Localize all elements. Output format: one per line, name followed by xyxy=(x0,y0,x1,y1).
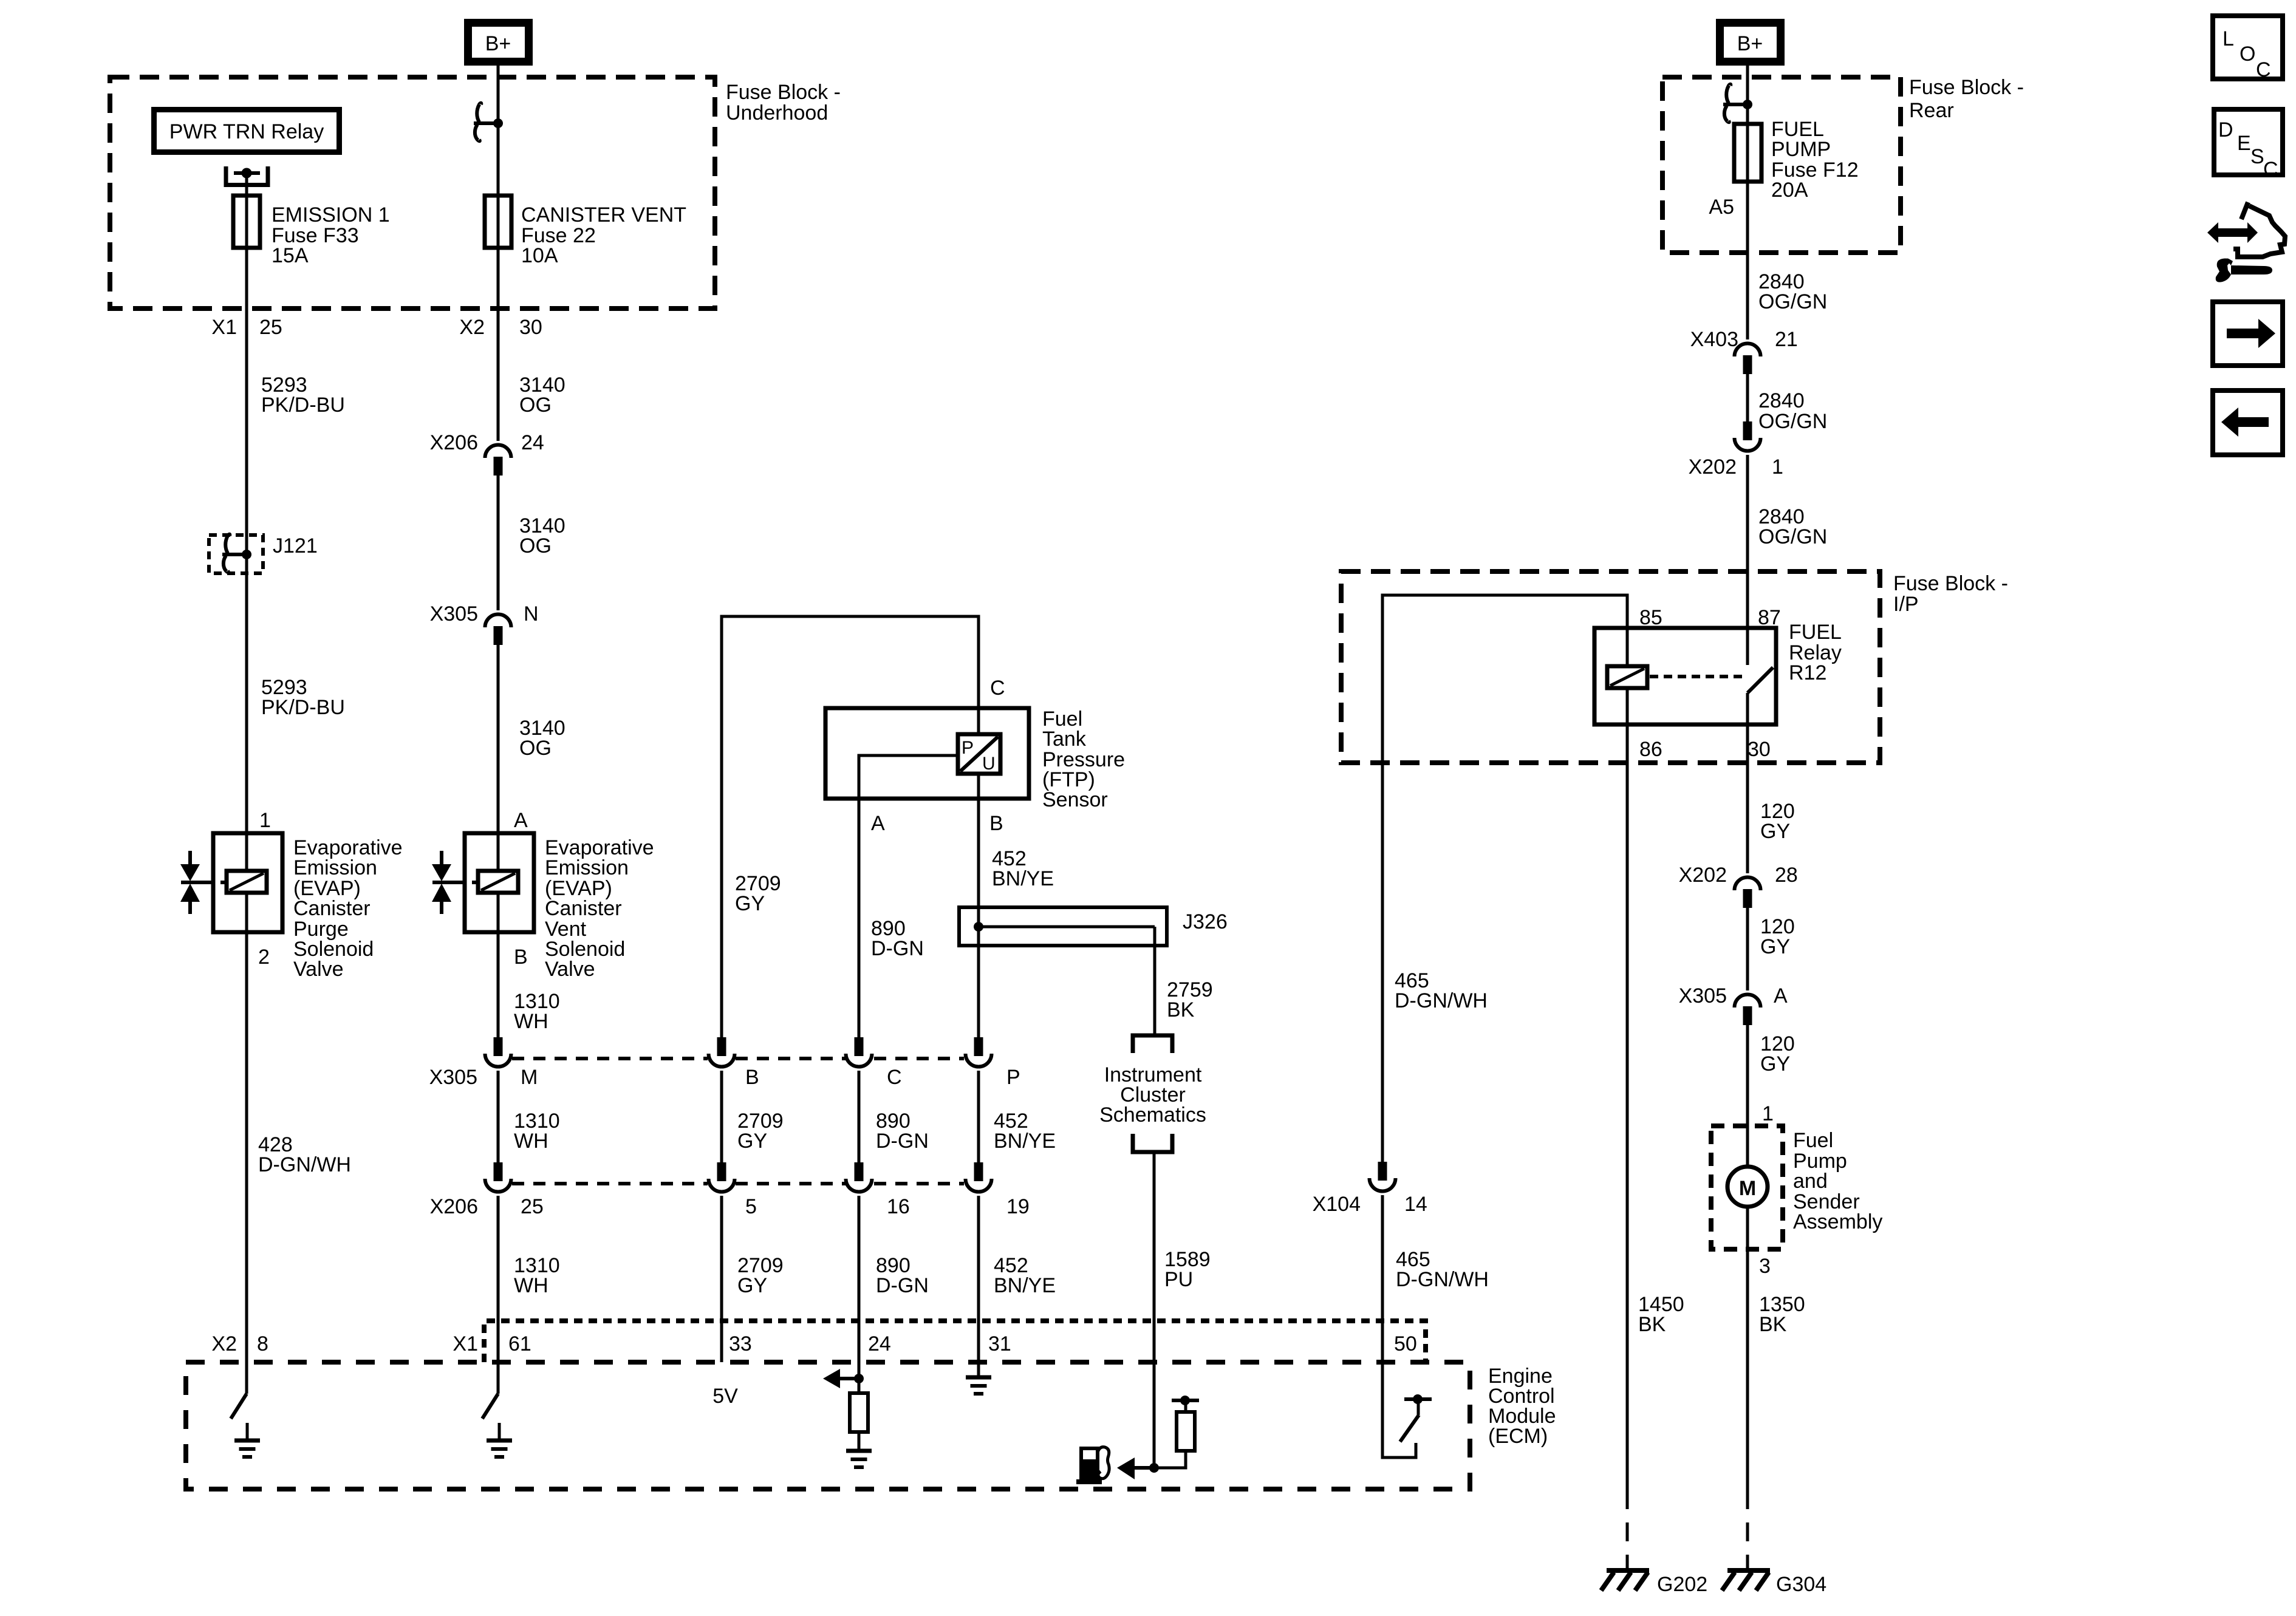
svg-text:PU: PU xyxy=(1164,1268,1193,1291)
wire 2840 OG/GN segment 2 xyxy=(1746,374,1749,421)
svg-text:21: 21 xyxy=(1775,328,1798,351)
svg-text:Fuse Block -: Fuse Block - xyxy=(1893,572,2008,595)
svg-text:X305: X305 xyxy=(429,1066,477,1089)
svg-text:FUEL: FUEL xyxy=(1789,621,1842,644)
wire 1310 WH segment 2 xyxy=(497,1071,500,1162)
FUEL Relay R12 label xyxy=(1789,621,1842,684)
relay switch blade xyxy=(1748,667,1773,693)
svg-text:A: A xyxy=(514,809,528,832)
svg-text:PK/D-BU: PK/D-BU xyxy=(261,394,345,417)
fuel relay box R12 xyxy=(1594,628,1776,724)
wire 2759 BK xyxy=(1153,927,1157,1034)
svg-text:CANISTER VENT: CANISTER VENT xyxy=(521,203,686,227)
Fuel Pump and Sender Assembly dashed box xyxy=(1711,1126,1783,1249)
ECM 5V reference arrow (pin 24) xyxy=(823,1369,864,1388)
svg-text:P: P xyxy=(962,738,974,758)
svg-text:BK: BK xyxy=(1759,1313,1787,1336)
svg-text:G304: G304 xyxy=(1776,1573,1826,1596)
row connector X206 5 xyxy=(709,1162,735,1192)
FTP sensor label xyxy=(1042,707,1125,811)
svg-text:S: S xyxy=(2250,145,2264,168)
svg-text:P: P xyxy=(1006,1066,1020,1089)
row connector X206 25 xyxy=(485,1162,511,1192)
svg-text:B: B xyxy=(745,1066,759,1089)
svg-text:C: C xyxy=(990,677,1005,700)
svg-text:61: 61 xyxy=(508,1332,531,1355)
forward arrow icon box xyxy=(2213,302,2283,366)
relay coil xyxy=(1607,666,1647,688)
svg-text:A5: A5 xyxy=(1709,196,1734,219)
wire 2709 GY segment 2 xyxy=(720,1071,723,1162)
svg-text:C: C xyxy=(2256,58,2271,81)
double-headed arrow xyxy=(2207,222,2258,243)
svg-text:GY: GY xyxy=(737,1274,767,1297)
Instrument Cluster Schematics label xyxy=(1099,1063,1206,1127)
svg-text:X202: X202 xyxy=(1679,864,1727,887)
svg-text:M: M xyxy=(521,1066,538,1089)
svg-text:1: 1 xyxy=(1772,455,1783,479)
EVAP vent valve label xyxy=(545,836,654,981)
wire 890 D-GN segment 3 xyxy=(858,1196,861,1379)
svg-text:1: 1 xyxy=(1762,1102,1774,1125)
ECM fuel pump driver switch (pin 50) xyxy=(1382,1362,1432,1457)
svg-text:PUMP: PUMP xyxy=(1771,138,1831,161)
wire 3140 OG segment 2 xyxy=(497,476,500,610)
svg-text:5: 5 xyxy=(745,1195,757,1218)
svg-text:3: 3 xyxy=(1759,1255,1771,1278)
svg-text:D-GN: D-GN xyxy=(876,1130,929,1153)
row connector X305 C xyxy=(846,1037,872,1067)
svg-text:D-GN: D-GN xyxy=(871,937,924,960)
inline connector X305 N xyxy=(430,602,539,645)
svg-text:D-GN: D-GN xyxy=(876,1274,929,1297)
svg-text:25: 25 xyxy=(521,1195,544,1218)
splice J121 xyxy=(209,534,318,573)
ECM label xyxy=(1488,1365,1556,1448)
svg-text:J326: J326 xyxy=(1183,910,1228,933)
svg-text:Assembly: Assembly xyxy=(1793,1210,1882,1233)
svg-text:OG/GN: OG/GN xyxy=(1758,410,1827,433)
svg-text:GY: GY xyxy=(1760,820,1790,843)
svg-text:GY: GY xyxy=(1760,1052,1790,1076)
svg-text:X305: X305 xyxy=(1679,984,1727,1007)
DESC icon box xyxy=(2214,109,2283,181)
svg-text:OG: OG xyxy=(519,394,552,417)
ECM sense resistor network (pin 16) xyxy=(1154,1396,1199,1468)
wrench icon xyxy=(2216,259,2272,282)
relay switched output wire (30) xyxy=(1746,693,1749,873)
Fuel Pump and Sender Assembly label xyxy=(1793,1129,1882,1233)
relay coil feed wire from ECM 50 xyxy=(1382,595,1627,763)
wire 120 GY segment 3 xyxy=(1746,1025,1749,1126)
svg-text:X1: X1 xyxy=(211,316,237,339)
ground (ECM pin 8) xyxy=(234,1440,260,1457)
svg-text:B+: B+ xyxy=(1737,32,1763,55)
svg-text:D-GN/WH: D-GN/WH xyxy=(1396,1268,1489,1291)
ECM X1 connector dotted boundary xyxy=(484,1321,1426,1362)
PWR TRN Relay box xyxy=(154,110,340,152)
svg-text:87: 87 xyxy=(1758,606,1781,629)
pump feed wire inside box xyxy=(1746,1126,1749,1167)
inline connector X202 1 xyxy=(1689,421,1783,479)
svg-text:50: 50 xyxy=(1394,1332,1417,1355)
instrument cluster off-page bracket top xyxy=(1133,1035,1172,1053)
fuse 22 CANISTER VENT xyxy=(485,196,511,248)
fuse F33 EMISSION 1 xyxy=(233,196,260,248)
svg-text:X206: X206 xyxy=(430,1195,478,1218)
Fuse Block - I/P dashed box xyxy=(1341,571,1880,763)
ground stub pin 61 xyxy=(498,1423,501,1440)
battery feed clip (rear) xyxy=(1723,84,1752,123)
ECM fuel level sense arrow (pin 16) xyxy=(1117,1457,1159,1479)
wire 2709 GY segment 3 xyxy=(720,1196,723,1362)
svg-text:WH: WH xyxy=(514,1274,548,1297)
vehicle silhouette icon xyxy=(2233,202,2285,257)
svg-text:PK/D-BU: PK/D-BU xyxy=(261,696,345,719)
ground G304 xyxy=(1722,1570,1770,1590)
EVAP canister purge solenoid valve xyxy=(180,833,282,932)
svg-text:OG: OG xyxy=(519,534,552,557)
wire 1589 PU xyxy=(1153,1152,1156,1468)
svg-text:R12: R12 xyxy=(1789,661,1826,684)
svg-text:X403: X403 xyxy=(1690,328,1738,351)
svg-text:14: 14 xyxy=(1404,1193,1427,1216)
splice J326 xyxy=(959,907,1228,946)
svg-text:Valve: Valve xyxy=(545,958,595,981)
svg-text:15A: 15A xyxy=(272,244,309,267)
svg-text:2: 2 xyxy=(258,946,270,969)
inline connector X104 14 xyxy=(1313,1162,1427,1216)
FTP sensor C wire top run xyxy=(722,616,979,1037)
svg-text:N: N xyxy=(524,602,539,626)
svg-text:Rear: Rear xyxy=(1909,99,1954,122)
svg-text:Fuse Block -: Fuse Block - xyxy=(1909,76,2024,99)
svg-text:20A: 20A xyxy=(1771,179,1808,202)
battery feed clip xyxy=(474,103,503,141)
X305 row dashed line xyxy=(512,1057,964,1060)
relay switch fixed contact (87) xyxy=(1746,628,1749,665)
svg-text:X202: X202 xyxy=(1689,455,1737,479)
svg-text:D-GN/WH: D-GN/WH xyxy=(258,1153,351,1176)
row connector X305 M xyxy=(485,1037,511,1067)
dashed ground lead 1350 BK xyxy=(1746,1490,1749,1569)
svg-text:B: B xyxy=(514,946,528,969)
dashed ground lead 1450 BK xyxy=(1626,1490,1629,1569)
svg-text:D-GN/WH: D-GN/WH xyxy=(1395,989,1488,1012)
svg-text:X206: X206 xyxy=(430,431,478,454)
svg-text:BN/YE: BN/YE xyxy=(994,1130,1056,1153)
ground (ECM pin 24 resistor) xyxy=(846,1451,872,1467)
svg-text:25: 25 xyxy=(259,316,282,339)
svg-text:D: D xyxy=(2218,118,2233,141)
wire 890 D-GN from FTP A xyxy=(858,799,861,1037)
ECM driver switch (pin 61) xyxy=(482,1394,498,1419)
ground (ECM pin 31) xyxy=(966,1377,991,1394)
ECM pull-up resistor (pin 24) xyxy=(850,1379,868,1449)
svg-text:(ECM): (ECM) xyxy=(1488,1425,1548,1448)
svg-text:Sensor: Sensor xyxy=(1042,788,1108,811)
ground (ECM pin 61) xyxy=(487,1440,512,1457)
svg-text:M: M xyxy=(1739,1177,1756,1200)
svg-text:28: 28 xyxy=(1775,864,1798,887)
svg-text:C: C xyxy=(2263,158,2278,181)
svg-text:X2: X2 xyxy=(211,1332,237,1355)
svg-text:B+: B+ xyxy=(485,32,511,55)
svg-text:and: and xyxy=(1793,1170,1828,1193)
svg-text:8: 8 xyxy=(257,1332,268,1355)
relay coil ground wire 1450 BK xyxy=(1626,688,1629,1490)
X206 row dashed line xyxy=(512,1182,964,1185)
EVAP purge valve label xyxy=(293,836,403,981)
Fuse Block - Underhood dashed box xyxy=(110,77,715,309)
svg-text:C: C xyxy=(887,1066,902,1089)
svg-text:G202: G202 xyxy=(1657,1573,1707,1596)
svg-text:X2: X2 xyxy=(459,316,485,339)
svg-text:GY: GY xyxy=(1760,935,1790,958)
svg-text:10A: 10A xyxy=(521,244,558,267)
svg-text:GY: GY xyxy=(735,892,765,915)
svg-text:E: E xyxy=(2237,132,2251,155)
row connector X206 16 xyxy=(846,1162,872,1192)
svg-text:BK: BK xyxy=(1167,998,1195,1021)
svg-text:PWR TRN Relay: PWR TRN Relay xyxy=(169,120,324,143)
instrument cluster off-page bracket bottom xyxy=(1133,1134,1172,1152)
wire relay to fuse F33 xyxy=(245,173,248,196)
svg-text:31: 31 xyxy=(988,1332,1011,1355)
inline connector X202 28 xyxy=(1679,864,1798,908)
svg-text:Underhood: Underhood xyxy=(726,101,828,124)
svg-text:1: 1 xyxy=(259,809,271,832)
pump return wire inside box xyxy=(1746,1207,1749,1249)
wire 3140 OG from B+ through fuse 22 xyxy=(497,66,500,441)
svg-text:OG: OG xyxy=(519,737,552,760)
svg-text:WH: WH xyxy=(514,1010,548,1033)
wire 452 BN/YE segment 3 xyxy=(977,1196,980,1377)
svg-text:Canister: Canister xyxy=(293,897,371,920)
svg-text:BK: BK xyxy=(1638,1313,1666,1336)
svg-text:BN/YE: BN/YE xyxy=(994,1274,1056,1297)
inline connector X305 A xyxy=(1679,984,1788,1025)
svg-text:B: B xyxy=(989,812,1003,835)
row connector X305 P xyxy=(966,1037,992,1067)
wire 2840 OG/GN from B+ through fuse F12 xyxy=(1746,66,1749,339)
svg-text:U: U xyxy=(982,754,996,774)
LOC icon box xyxy=(2213,16,2283,81)
fuse F12 FUEL PUMP xyxy=(1734,124,1761,182)
row connector X206 19 xyxy=(966,1162,992,1192)
ECM box xyxy=(186,1362,1470,1489)
svg-text:2840: 2840 xyxy=(1758,389,1805,412)
relay actuation dashed link xyxy=(1650,675,1744,678)
wire 120 GY segment 2 xyxy=(1746,908,1749,990)
wire 465 D-GN/WH segment 1 xyxy=(1381,763,1384,1162)
B+ power symbol (left) xyxy=(468,23,529,62)
Fuse Block - Rear dashed box xyxy=(1662,77,1901,253)
svg-text:I/P: I/P xyxy=(1893,593,1919,616)
svg-text:A: A xyxy=(1774,984,1788,1007)
svg-text:OG/GN: OG/GN xyxy=(1758,525,1827,548)
svg-text:X1: X1 xyxy=(453,1332,478,1355)
svg-text:J121: J121 xyxy=(273,534,318,557)
ground G202 xyxy=(1601,1570,1649,1590)
ECM driver switch (pin 8) xyxy=(231,1394,247,1419)
wire 1350 BK xyxy=(1746,1249,1749,1490)
svg-text:30: 30 xyxy=(519,316,542,339)
svg-text:Fuel: Fuel xyxy=(1793,1129,1833,1152)
wire 1310 WH segment 1 xyxy=(497,932,500,1037)
EVAP canister vent solenoid valve xyxy=(432,833,534,932)
svg-text:Emission: Emission xyxy=(545,856,629,879)
svg-text:L: L xyxy=(2223,27,2234,50)
svg-text:19: 19 xyxy=(1006,1195,1030,1218)
PWR TRN relay pin bracket xyxy=(224,166,270,185)
svg-text:16: 16 xyxy=(887,1195,910,1218)
wire 452 BN/YE segment 2 xyxy=(977,1071,980,1162)
svg-text:X305: X305 xyxy=(430,602,478,626)
svg-text:X104: X104 xyxy=(1313,1193,1361,1216)
fuel pump motor xyxy=(1727,1167,1768,1207)
svg-text:A: A xyxy=(871,812,885,835)
wire 428 D-GN/WH to ECM xyxy=(245,932,248,1394)
svg-text:24: 24 xyxy=(521,431,544,454)
row connector X305 B xyxy=(709,1037,735,1067)
svg-text:30: 30 xyxy=(1748,738,1771,761)
svg-text:GY: GY xyxy=(737,1130,767,1153)
wire 2840 OG/GN segment 3 xyxy=(1746,455,1749,628)
ground stub pin 8 xyxy=(246,1423,249,1440)
svg-text:24: 24 xyxy=(868,1332,891,1355)
svg-text:Valve: Valve xyxy=(293,958,344,981)
wire 5293 from fuse F33 to EVAP purge valve xyxy=(245,196,248,833)
inline connector X206 24 xyxy=(430,431,544,476)
svg-text:Canister: Canister xyxy=(545,897,622,920)
fuel gauge icon (ECM pin 16) xyxy=(1076,1447,1109,1484)
svg-text:OG/GN: OG/GN xyxy=(1758,290,1827,313)
wire 3140 OG segment 3 xyxy=(497,645,500,833)
wire 465 D-GN/WH segment 2 xyxy=(1381,1195,1384,1362)
svg-text:BN/YE: BN/YE xyxy=(992,867,1054,890)
back arrow icon box xyxy=(2213,390,2283,455)
B+ power symbol (right) xyxy=(1720,23,1781,62)
svg-text:33: 33 xyxy=(729,1332,752,1355)
svg-text:Tank: Tank xyxy=(1042,728,1087,751)
svg-text:5V: 5V xyxy=(712,1385,738,1408)
svg-text:86: 86 xyxy=(1639,738,1662,761)
wire 452 BN/YE from FTP B xyxy=(977,799,980,1037)
svg-text:85: 85 xyxy=(1639,606,1662,629)
svg-text:Fuse Block -: Fuse Block - xyxy=(726,81,841,104)
wire 890 D-GN segment 2 xyxy=(858,1071,861,1162)
svg-text:Emission: Emission xyxy=(293,856,377,879)
Fuel Tank Pressure sensor box xyxy=(825,708,1029,799)
FUEL PUMP fuse label xyxy=(1771,118,1859,202)
svg-text:O: O xyxy=(2240,43,2255,66)
wire 1310 WH segment 3 xyxy=(497,1196,500,1394)
svg-text:WH: WH xyxy=(514,1130,548,1153)
svg-text:EMISSION 1: EMISSION 1 xyxy=(272,203,390,227)
inline connector X403 21 xyxy=(1690,328,1798,374)
svg-text:Schematics: Schematics xyxy=(1099,1103,1206,1127)
